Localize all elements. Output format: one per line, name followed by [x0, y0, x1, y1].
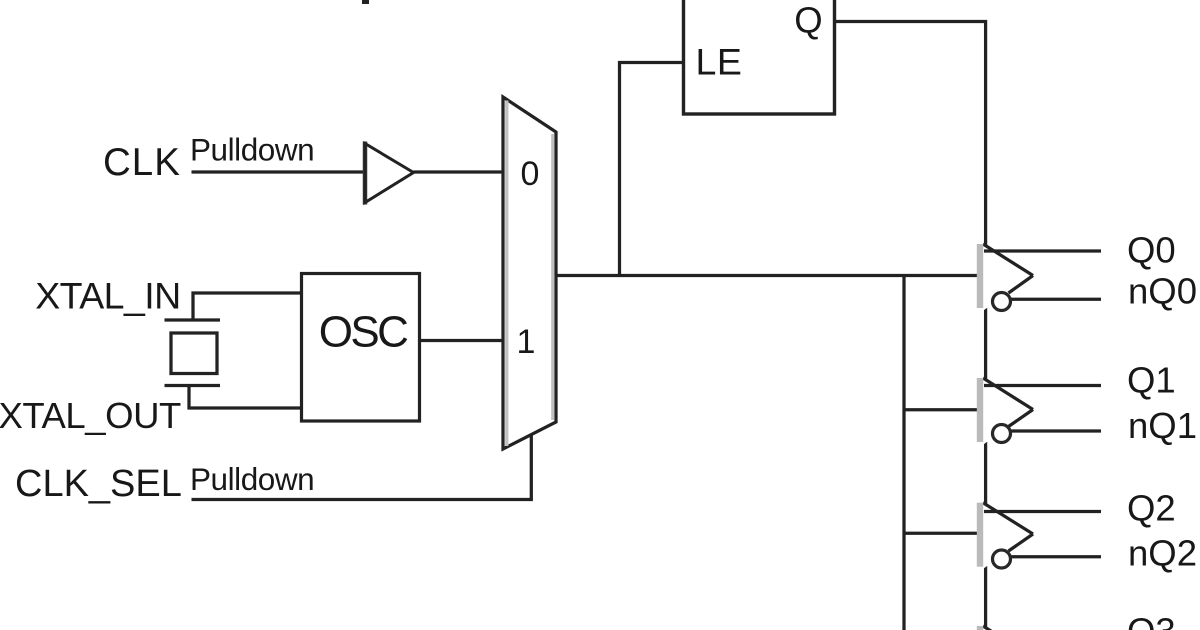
wire CLK_SEL to mux select: [192, 434, 532, 500]
svg-text:XTAL_IN: XTAL_IN: [35, 274, 181, 316]
wire Q1 output: [984, 384, 1101, 387]
svg-text:Pulldown: Pulldown: [190, 461, 314, 497]
buffer Q3 top edge: [983, 626, 1033, 630]
inversion bubble nQ0: [993, 293, 1011, 311]
output buffer Q3: [977, 626, 1033, 630]
buffer Q2 body fill: [983, 503, 1033, 569]
wire: latch Q output to fanout bus: [835, 22, 986, 630]
wire XTAL_IN: [193, 293, 302, 320]
wire CLK input: [192, 170, 365, 173]
buffer Q3 input bar: [977, 626, 983, 630]
output buffer Q1: [977, 378, 1101, 445]
wire: mux output node to LE input: [620, 63, 684, 276]
svg-text:Pulldown: Pulldown: [190, 132, 314, 168]
latch U1 (LE box): [684, 0, 835, 114]
wire nQ0 output: [1009, 298, 1101, 301]
wire nQ1 output: [1009, 429, 1101, 432]
oscillator U3 (OSC box): [302, 274, 420, 422]
svg-text:Q: Q: [794, 0, 822, 41]
svg-text:OSC: OSC: [319, 307, 408, 356]
buffer Q1 bottom edge: [1009, 410, 1034, 427]
svg-text:XTAL_OUT: XTAL_OUT: [0, 395, 181, 436]
svg-text:nQ0: nQ0: [1128, 270, 1197, 311]
mux U4: [503, 97, 556, 449]
crystal Y1 top plate: [165, 318, 221, 321]
buffer Q3 body fill: [983, 626, 1033, 630]
wire: stub to buffer Q1: [904, 408, 980, 411]
buffer Q1 body fill: [983, 378, 1033, 445]
buffer Q0 top edge: [983, 244, 1033, 276]
buffer U2 (CLK input buffer): [363, 142, 368, 205]
wire: stub to buffer Q2: [904, 532, 980, 535]
svg-text:1: 1: [517, 323, 536, 361]
wire Q0 output: [984, 249, 1101, 252]
inversion bubble nQ2: [993, 550, 1011, 568]
svg-text:LE: LE: [696, 40, 743, 82]
output buffer Q2: [977, 503, 1101, 569]
svg-text:Q3: Q3: [1127, 611, 1176, 630]
mux U4 inner shade left: [505, 101, 508, 447]
buffer Q0 input bar: [977, 244, 983, 308]
wire: OSC output to mux input 1: [420, 339, 504, 342]
buffer Q1 input bar: [977, 378, 983, 442]
wire XTAL_OUT: [189, 386, 302, 409]
wire: mux output to output buffers: [556, 274, 981, 277]
mux U4 inner shade right: [551, 134, 554, 420]
crystal Y1 bottom plate: [165, 384, 221, 387]
svg-text:0: 0: [521, 155, 540, 193]
wire Q2 output: [984, 510, 1101, 513]
inversion bubble nQ1: [993, 425, 1011, 443]
cropped text remnant dot top-left: [362, 0, 369, 4]
buffer Q2 input bar: [977, 503, 983, 567]
svg-text:CLK: CLK: [103, 141, 181, 184]
buffer Q2 top edge: [983, 503, 1033, 534]
svg-text:Q0: Q0: [1127, 229, 1176, 270]
svg-text:Q1: Q1: [1127, 359, 1176, 400]
buffer Q0 bottom edge: [1009, 276, 1034, 294]
svg-text:nQ1: nQ1: [1128, 405, 1197, 446]
buffer Q0 body fill: [983, 244, 1033, 311]
buffer Q2 bottom edge: [1009, 534, 1034, 551]
node: fanout left bus: [902, 276, 905, 630]
buffer Q1 top edge: [983, 378, 1033, 410]
svg-text:CLK_SEL: CLK_SEL: [15, 463, 182, 505]
output buffer Q0: [977, 244, 1101, 311]
svg-text:Q2: Q2: [1127, 488, 1176, 529]
wire nQ2 output: [1009, 555, 1101, 558]
crystal Y1 body: [171, 333, 217, 374]
wire: CLK buffer to mux input 0: [414, 170, 504, 173]
svg-text:nQ2: nQ2: [1128, 533, 1197, 574]
